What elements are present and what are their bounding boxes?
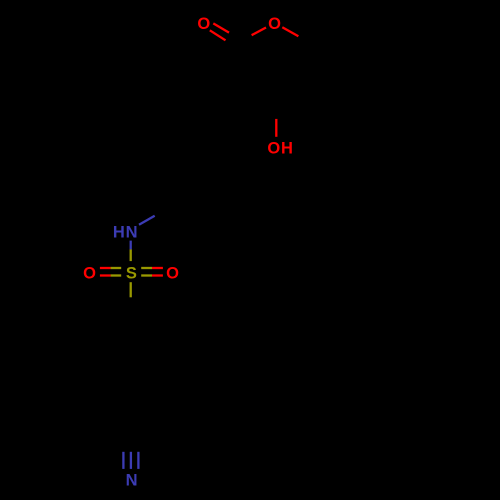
svg-text:O: O [83, 264, 96, 282]
svg-text:O: O [268, 15, 281, 33]
svg-text:HN: HN [113, 224, 138, 242]
bond O1-C8a red half (ester O to fused ring carbon) [282, 27, 298, 36]
svg-text:O: O [197, 15, 210, 33]
bond C4-O red half (stem above OH) [275, 119, 277, 137]
bond S=O right, upper line olive half [141, 267, 152, 269]
bond C2=O carbonyl double bond, lower red half-line [210, 30, 226, 40]
bond O1-C2 red half (ester O to carbonyl carbon) [252, 28, 266, 36]
bond S=O left, upper line red half [100, 267, 111, 269]
bond C#N nitrile triple bond, right blue half-line [137, 452, 139, 469]
bond S=O right, upper line red half [152, 267, 163, 269]
bond C#N nitrile triple bond, center blue half-line [130, 452, 132, 469]
bond S=O right, lower line olive half [141, 274, 152, 276]
bond S=O left, lower line olive half [111, 274, 122, 276]
bond S-C(aryl) olive half (down from S) [130, 282, 132, 297]
svg-text:N: N [126, 472, 138, 490]
bond C2=O carbonyl double bond, upper red half-line [213, 23, 229, 32]
bond N-S lower olive half [130, 249, 132, 261]
svg-text:OH: OH [267, 140, 293, 158]
bond N-C(aryl) blue half (from amide N up-right to ring) [139, 216, 155, 225]
bond S=O left, lower line red half [100, 274, 111, 276]
bond C#N nitrile triple bond, left blue half-line [122, 452, 124, 469]
svg-text:S: S [126, 264, 137, 282]
bond S=O right, lower line red half [152, 274, 163, 276]
bond S=O left, upper line olive half [111, 267, 122, 269]
svg-text:O: O [166, 264, 179, 282]
bond N-S upper blue half [130, 241, 132, 250]
